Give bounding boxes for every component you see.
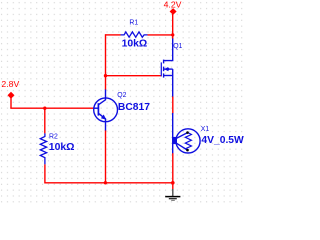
wire Q1 source to lamp [172,97,174,114]
drain lead [164,39,173,61]
wire drain red stub below junction [172,35,174,39]
X1 filament dot top [186,131,189,134]
svg-text:10kΩ: 10kΩ [49,142,75,153]
Q2 base bar [97,103,99,115]
junction dot emitter/bottom rail [104,181,107,184]
wire R1 right lead to junction [148,34,173,36]
lamp X1 [173,113,200,154]
wire R2 top [44,108,46,133]
svg-text:4V_0.5W: 4V_0.5W [201,135,244,146]
X1 filament zigzag [185,132,191,150]
Q2 circle [94,98,118,122]
source lead down [172,69,174,97]
body dot Q1 [167,68,170,71]
svg-text:10kΩ: 10kΩ [122,39,148,50]
channel bar top [163,60,165,64]
svg-text:Q1: Q1 [173,43,182,50]
X1 bulb circle [176,129,200,153]
X1 top lead [172,113,174,137]
svg-text:R1: R1 [129,20,138,27]
wire 4.2V diamond to R1/Q1 junction [172,14,174,35]
Q2 base lead [93,107,98,109]
transistor Q1 NMOS [161,39,172,98]
X1 filament dot bottom [186,149,189,152]
wire gate horizontal to Q1 [106,75,162,77]
wire 2.8V to Q2 base [10,107,93,109]
wire R2 bottom to bottom rail [45,164,173,182]
junction dot gate wire [104,74,107,77]
junction dot ground [171,181,175,185]
X1 base rect [172,137,177,144]
Q2 emitter arrow [101,115,106,120]
body arrow Q1 [164,67,168,71]
Q2 collector [98,90,105,105]
transistor Q2 BC817 [93,90,117,131]
resistor R1 [121,32,148,37]
Q2 emitter [98,113,105,130]
svg-text:X1: X1 [201,126,210,133]
channel bar middle [163,67,165,72]
wire gate junction to Q2 collector [105,76,107,90]
wire Q2 emitter down [105,130,107,183]
svg-text:BC817: BC817 [118,102,150,113]
svg-text:R2: R2 [49,134,58,141]
wire lamp bottom to rail [172,153,174,183]
ground symbol [165,189,180,200]
junction dot R1 right / drain [171,33,174,36]
wire left vertical corner down to gate junction [105,34,107,75]
wire ground stub red [172,183,174,190]
svg-text:4.2V: 4.2V [164,0,182,9]
channel bar bottom [163,73,165,77]
power node 2.8V diamond [8,92,15,99]
resistor R2 [40,133,46,164]
wire 2.8V diamond down [10,97,12,108]
gate bar [160,62,162,76]
junction dot R2 branch [43,107,46,110]
X1 bottom lead [172,144,174,154]
body stub [164,68,173,70]
source stub [164,75,173,77]
X1 connector bottom [177,143,188,150]
svg-text:2.8V: 2.8V [1,79,19,89]
X1 connector top [177,133,188,139]
svg-text:Q2: Q2 [117,92,126,99]
power node 4.2V diamond [170,8,177,15]
wire R1 left lead to corner [106,34,121,36]
